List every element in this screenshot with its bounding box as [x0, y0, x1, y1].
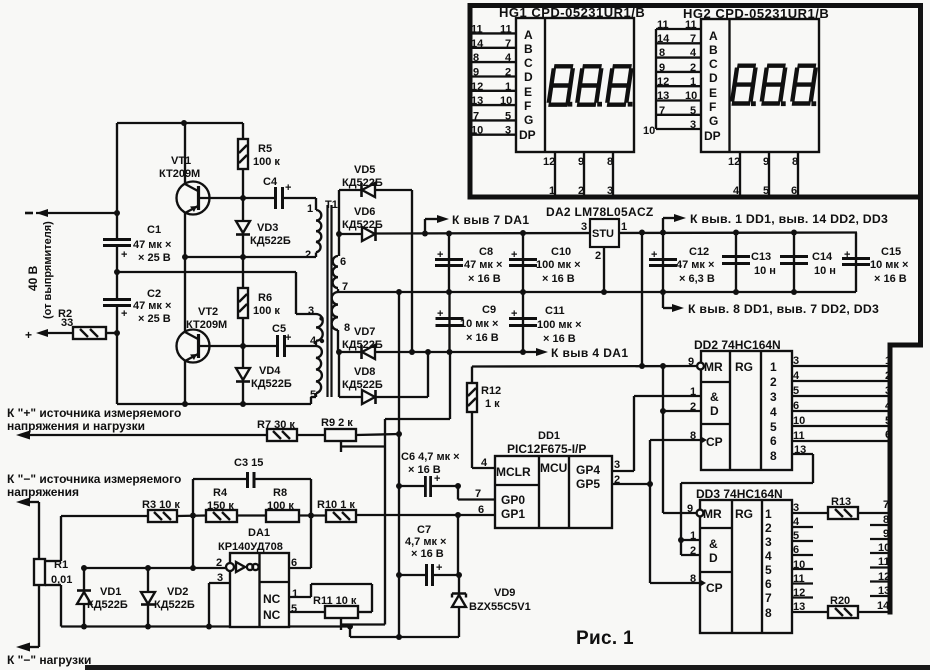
svg-text:9: 9 [473, 67, 479, 79]
node pin6 / VD6 row [336, 231, 342, 237]
svg-text:1: 1 [765, 507, 772, 521]
shunt resistor R1 [28, 501, 39, 503]
resistor R6 [242, 257, 244, 288]
svg-text:3: 3 [607, 185, 613, 197]
wire row1 [185, 256, 316, 258]
svg-text:К "−" нагрузки: К "−" нагрузки [7, 653, 91, 667]
svg-text:VT2: VT2 [198, 306, 218, 318]
node VT2 base junction [240, 343, 246, 349]
node DD3 MR inversion bubble [697, 510, 704, 517]
svg-text:10 н: 10 н [754, 265, 776, 277]
svg-text:CP: CP [706, 581, 723, 595]
svg-text:14: 14 [657, 33, 670, 45]
svg-text:MCU: MCU [540, 461, 567, 475]
svg-text:D: D [710, 404, 719, 418]
IC DD1 box [495, 456, 612, 528]
svg-text:10 мк ×: 10 мк × [460, 318, 498, 330]
wire row2 to T1 pin3 [117, 271, 296, 273]
svg-text:× 16 В: × 16 В [874, 273, 907, 285]
zener diode VD9 [458, 575, 460, 594]
svg-text:5: 5 [690, 105, 696, 117]
svg-text:1: 1 [505, 81, 511, 93]
svg-text:2: 2 [770, 375, 777, 389]
wire VD5 cathode drop [411, 190, 413, 352]
svg-text:VD5: VD5 [354, 164, 375, 176]
svg-text:С14: С14 [812, 251, 833, 263]
svg-text:× 16 В: × 16 В [542, 273, 575, 285]
capacitor C11 [522, 292, 524, 352]
svg-text:4: 4 [793, 370, 800, 382]
svg-text:К выв 7 DA1: К выв 7 DA1 [452, 213, 529, 227]
svg-text:4: 4 [481, 457, 488, 469]
node DD2 MR inversion bubble [697, 363, 704, 370]
svg-text:С2: С2 [147, 288, 161, 300]
svg-text:С3 15: С3 15 [234, 457, 263, 469]
wire MR line [472, 365, 697, 368]
node DD3 CP dynamic marker [700, 580, 706, 587]
svg-text:VD4: VD4 [259, 365, 281, 377]
svg-text:DD2 74HC164N: DD2 74HC164N [694, 338, 781, 352]
wire thick output bus [890, 195, 921, 615]
svg-text:100 мк ×: 100 мк × [537, 319, 582, 331]
svg-text:2: 2 [216, 557, 222, 569]
display HG2 digits 888 [732, 66, 816, 104]
svg-text:A: A [709, 29, 718, 43]
wire DD3 MR pin9 [663, 512, 697, 514]
svg-text:DD1: DD1 [538, 430, 560, 442]
svg-text:8: 8 [770, 449, 777, 463]
wire plus terminal [44, 332, 73, 334]
wire ground mid rail [338, 291, 856, 293]
display HG1 body [516, 18, 634, 152]
svg-text:+: + [511, 249, 517, 261]
svg-text:С6 4,7 мк ×: С6 4,7 мк × [401, 451, 460, 463]
svg-text:С10: С10 [551, 246, 571, 258]
node VD5 drop on minus rail [409, 349, 415, 355]
svg-text:К выв 4 DA1: К выв 4 DA1 [551, 346, 628, 360]
svg-text:DP: DP [519, 128, 536, 142]
svg-text:1: 1 [885, 355, 891, 367]
diode VD2 [147, 568, 149, 592]
svg-text:9: 9 [578, 156, 584, 168]
wire VD1/VD2 top row to DA1 pin2 [84, 567, 226, 569]
resistor R3 [148, 510, 177, 522]
svg-text:+: + [285, 182, 291, 194]
svg-text:12: 12 [471, 81, 483, 93]
diode VD1 [83, 568, 85, 591]
resistor R9 trimmer [325, 429, 356, 441]
svg-text:G: G [524, 113, 533, 127]
svg-text:× 16 В: × 16 В [411, 548, 444, 560]
svg-text:NC: NC [263, 592, 281, 606]
svg-text:5: 5 [310, 389, 316, 401]
capacitor C14 [793, 233, 795, 293]
wire branch to K vyv 7 DA1 [424, 219, 426, 234]
resistor R2 [73, 327, 106, 339]
svg-text:С15: С15 [881, 246, 901, 258]
node T1 pin4 polarity dot [320, 339, 324, 343]
svg-text:1: 1 [292, 588, 298, 600]
svg-text:G: G [709, 114, 718, 128]
svg-text:КД522Б: КД522Б [342, 177, 383, 189]
svg-text:КД522Б: КД522Б [154, 599, 195, 611]
svg-text:1 к: 1 к [485, 398, 500, 410]
svg-text:9: 9 [688, 356, 694, 368]
svg-text:DP: DP [704, 129, 721, 143]
svg-text:100 к: 100 к [253, 305, 280, 317]
svg-text:+: + [437, 249, 443, 261]
node VD3 bottom row1 [240, 254, 246, 260]
scan edge bottom [85, 665, 930, 670]
svg-text:VD1: VD1 [100, 586, 121, 598]
wire DD3 pin1 [681, 539, 700, 541]
svg-text:С12: С12 [689, 246, 709, 258]
svg-text:2: 2 [690, 545, 696, 557]
diode VD3 [242, 198, 244, 221]
wire T1 pin6 vertical [338, 190, 340, 256]
wire DA1 pin3 [209, 582, 230, 584]
wire DD3 row8 through R20 [792, 611, 828, 613]
svg-text:8: 8 [690, 573, 696, 585]
display HG2 bottom pins [739, 152, 741, 195]
svg-text:С9: С9 [482, 304, 496, 316]
svg-text:STU: STU [592, 228, 614, 240]
capacitor C12 [662, 233, 664, 292]
svg-text:+: + [844, 249, 850, 261]
svg-text:E: E [524, 85, 532, 99]
svg-text:CP: CP [706, 435, 723, 449]
wire DA1 pin1 [289, 596, 311, 598]
wire wiper net vertical x385 [384, 419, 386, 625]
svg-text:КТ209М: КТ209М [186, 319, 227, 331]
svg-text:6: 6 [765, 577, 772, 591]
transistor VT1 [177, 182, 210, 215]
diode VD8 [339, 396, 362, 398]
svg-text:8: 8 [344, 322, 350, 334]
wire left vertical C1/C2 column [116, 123, 118, 239]
svg-text:4: 4 [765, 549, 772, 563]
svg-text:1: 1 [307, 203, 313, 215]
svg-text:6: 6 [478, 504, 484, 516]
svg-text:10: 10 [500, 95, 512, 107]
svg-text:С8: С8 [479, 246, 493, 258]
opamp DA1 box [230, 553, 289, 627]
svg-text:8: 8 [792, 156, 798, 168]
wire MR pullup vertical x642 [641, 233, 643, 366]
transformer T1 secondary winding 6-7 [333, 256, 338, 288]
node C11 bottom on minus rail [520, 349, 526, 355]
svg-text:7: 7 [765, 591, 772, 605]
svg-text:10 н: 10 н [814, 265, 836, 277]
node VT1 emitter / row1 [182, 254, 188, 260]
svg-text:DD3 74HC164N: DD3 74HC164N [696, 487, 783, 501]
svg-text:E: E [709, 86, 717, 100]
display HG2 body [701, 19, 819, 152]
svg-text:2: 2 [765, 521, 772, 535]
node top rail / VT1 collector [181, 120, 187, 126]
svg-text:+: + [121, 308, 127, 320]
svg-text:10: 10 [471, 125, 483, 137]
svg-text:12: 12 [728, 156, 740, 168]
svg-text:5: 5 [770, 420, 777, 434]
wire VD8 branch [338, 352, 340, 397]
resistor R11 [325, 606, 358, 618]
wire DD2 pin2 [663, 410, 701, 412]
svg-text:8: 8 [659, 47, 665, 59]
svg-text:PIC12F675-I/P: PIC12F675-I/P [507, 442, 586, 456]
svg-text:3: 3 [505, 125, 511, 137]
svg-text:3: 3 [581, 221, 587, 233]
svg-text:GP5: GP5 [576, 477, 600, 491]
svg-text:7: 7 [473, 111, 479, 123]
resistor R13 [828, 507, 858, 519]
svg-text:4: 4 [690, 47, 697, 59]
resistor R12 [471, 367, 473, 384]
svg-text:R6: R6 [258, 292, 272, 304]
capacitor C15 [855, 233, 857, 293]
capacitor C1 [103, 238, 131, 241]
svg-text:8: 8 [690, 430, 696, 442]
svg-text:33: 33 [61, 317, 73, 329]
capacitor C8 [448, 234, 450, 292]
svg-text:2: 2 [578, 185, 584, 197]
svg-text:VD8: VD8 [354, 366, 375, 378]
svg-text:R11 10 к: R11 10 к [313, 595, 357, 607]
svg-text:F: F [709, 100, 716, 114]
svg-text:D: D [709, 71, 718, 85]
svg-text:(от выпрямителя): (от выпрямителя) [42, 221, 54, 319]
svg-text:8: 8 [765, 606, 772, 620]
svg-text:HG1 CPD-05231UR1/B: HG1 CPD-05231UR1/B [499, 5, 645, 20]
node minus terminal junction [114, 210, 120, 216]
capacitor C5 [243, 345, 277, 347]
display HG1 bottom pins [554, 152, 556, 195]
svg-text:× 25 В: × 25 В [138, 313, 171, 325]
svg-text:8: 8 [883, 514, 889, 526]
svg-text:+: + [121, 249, 127, 261]
svg-text:11: 11 [793, 430, 805, 442]
svg-text:14: 14 [471, 38, 484, 50]
svg-text:13: 13 [794, 444, 806, 456]
resistor R20 [828, 606, 858, 618]
node VD4 bottom on row3 [240, 401, 246, 407]
svg-text:7: 7 [690, 33, 696, 45]
svg-text:11: 11 [685, 19, 697, 31]
svg-text:&: & [710, 390, 719, 404]
svg-text:4: 4 [505, 52, 512, 64]
wire GP4 pin3 to DD2 pin1 [612, 470, 634, 472]
svg-text:4: 4 [310, 335, 317, 347]
svg-text:5: 5 [793, 530, 799, 542]
svg-text:12: 12 [878, 571, 890, 583]
svg-text:8: 8 [607, 156, 613, 168]
svg-text:DA2 LM78L05ACZ: DA2 LM78L05ACZ [546, 205, 654, 219]
svg-text:R4: R4 [213, 487, 228, 499]
svg-text:6: 6 [885, 429, 891, 441]
svg-text:2: 2 [614, 474, 620, 486]
svg-text:4: 4 [793, 516, 800, 528]
IC DD3 box [700, 500, 792, 633]
svg-text:2: 2 [595, 250, 601, 262]
svg-text:7: 7 [883, 499, 889, 511]
svg-text:С7: С7 [417, 524, 431, 536]
svg-text:напряжения: напряжения [7, 485, 79, 499]
wire MCLR pin4 [472, 467, 495, 469]
svg-text:напряжения и нагрузки: напряжения и нагрузки [7, 419, 145, 433]
svg-text:Т1: Т1 [325, 199, 338, 211]
svg-text:8: 8 [473, 52, 479, 64]
svg-text:4,7 мк ×: 4,7 мк × [405, 536, 446, 548]
capacitor C9 [448, 292, 450, 352]
wire DD2 output rows to bus [792, 365, 890, 367]
display HG1 ladder [469, 33, 471, 134]
svg-text:2: 2 [505, 67, 511, 79]
resistor R4 [206, 510, 237, 522]
svg-text:+: + [25, 328, 32, 342]
wire x663 down to DD2 pin2 and DD3 MR [662, 366, 664, 513]
svg-text:NC: NC [263, 608, 281, 622]
wire minus terminal [36, 212, 117, 214]
svg-text:К "−" источника измеряемого: К "−" источника измеряемого [7, 472, 181, 486]
svg-text:DA1: DA1 [248, 527, 270, 539]
svg-text:GP0: GP0 [501, 493, 525, 507]
svg-text:3: 3 [614, 459, 620, 471]
node R3/R4/C3/pin2 junction [190, 513, 196, 519]
svg-text:5: 5 [505, 111, 511, 123]
svg-text:9: 9 [883, 528, 889, 540]
svg-text:BZX55C5V1: BZX55C5V1 [469, 601, 531, 613]
wire bottom common rail [61, 625, 350, 627]
capacitor C10 [522, 233, 524, 292]
wire DD3 right stubs to bus [870, 524, 890, 526]
node branch K7DA1 [422, 231, 428, 237]
wire R1 top stub [45, 560, 61, 562]
svg-text:+: + [651, 249, 657, 261]
svg-text:HG2 CPD-05231UR1/B: HG2 CPD-05231UR1/B [683, 6, 829, 21]
svg-text:С5: С5 [272, 323, 286, 335]
svg-text:5: 5 [765, 563, 772, 577]
svg-text:R12: R12 [481, 385, 501, 397]
svg-text:4: 4 [885, 400, 892, 412]
svg-text:2: 2 [690, 62, 696, 74]
wire DD2 CP pin8 [650, 439, 701, 441]
transformer T1 secondary winding 7-8 [332, 292, 338, 330]
svg-text:1: 1 [690, 530, 696, 542]
wire K plus line with R7 R9 [28, 434, 267, 436]
wire C6 to GP0 pin7 [457, 486, 459, 500]
svg-text:5: 5 [763, 185, 769, 197]
svg-text:VD6: VD6 [354, 206, 375, 218]
svg-text:6: 6 [793, 400, 799, 412]
svg-text:7: 7 [659, 105, 665, 117]
wire DD3 CP pin8 [650, 582, 700, 584]
svg-text:× 25 В: × 25 В [138, 252, 171, 264]
regulator DA2 STU box [603, 247, 605, 292]
wire ground drop x399 [398, 292, 400, 637]
svg-text:С1: С1 [147, 224, 161, 236]
svg-text:5: 5 [291, 603, 297, 615]
svg-text:100 к: 100 к [267, 500, 294, 512]
svg-text:9: 9 [687, 503, 693, 515]
svg-text:13: 13 [793, 601, 805, 613]
svg-text:A: A [524, 28, 533, 42]
svg-text:+: + [437, 308, 443, 320]
svg-text:7: 7 [342, 281, 348, 293]
svg-text:1: 1 [690, 386, 696, 398]
svg-text:C: C [524, 56, 533, 70]
svg-text:RG: RG [735, 507, 753, 521]
transformer T1 core [326, 205, 328, 397]
diode VD5 [339, 189, 361, 191]
svg-text:10: 10 [793, 415, 805, 427]
svg-text:11: 11 [793, 573, 805, 585]
node C1 bottom row2 junction [114, 269, 120, 275]
svg-text:R13: R13 [831, 496, 851, 508]
wire C7 right to GP1 line [457, 515, 459, 575]
node 5V rail x642 [639, 230, 645, 236]
svg-text:× 6,3 В: × 6,3 В [679, 273, 715, 285]
svg-text:С13: С13 [751, 251, 771, 263]
resistor R8 [266, 510, 299, 522]
svg-text:9: 9 [763, 156, 769, 168]
svg-text:+: + [511, 308, 517, 320]
node T1 pin3 polarity dot [319, 316, 323, 320]
svg-text:3: 3 [793, 355, 799, 367]
svg-text:40 В: 40 В [26, 265, 40, 291]
svg-text:14: 14 [877, 600, 890, 612]
svg-text:D: D [524, 70, 533, 84]
svg-text:3: 3 [690, 119, 696, 131]
wire +5V rail [376, 233, 857, 234]
wire row3 emitter bottom [117, 403, 311, 405]
svg-text:7: 7 [505, 38, 511, 50]
svg-text:13: 13 [878, 585, 890, 597]
svg-text:4: 4 [770, 405, 777, 419]
svg-text:MR: MR [704, 360, 723, 374]
svg-text:12: 12 [793, 587, 805, 599]
svg-text:13: 13 [657, 90, 669, 102]
resistor R7 [267, 429, 297, 441]
node R8/R10/C3/pin6 junction [308, 513, 314, 519]
transformer T1 primary winding 4-5 [315, 341, 317, 346]
svg-text:150 к: 150 к [207, 500, 234, 512]
svg-text:11: 11 [657, 19, 669, 31]
display outer thick frame [470, 6, 921, 198]
capacitor C13 [735, 233, 737, 293]
svg-text:11: 11 [471, 24, 483, 36]
capacitor C7 [399, 574, 459, 576]
svg-text:9: 9 [659, 62, 665, 74]
svg-text:R7 30 к: R7 30 к [257, 419, 295, 431]
svg-text:F: F [524, 99, 531, 113]
svg-text:47 мк ×: 47 мк × [464, 259, 502, 271]
svg-text:КД522Б: КД522Б [250, 235, 291, 247]
svg-text:КД522Б: КД522Б [342, 379, 383, 391]
svg-text:100 к: 100 к [253, 156, 280, 168]
svg-text:D: D [709, 551, 718, 565]
svg-text:47 мк ×: 47 мк × [133, 239, 171, 251]
wire branch K vyv 8 DD1 [662, 292, 664, 308]
svg-text:С4: С4 [263, 176, 278, 188]
svg-text:3: 3 [885, 385, 891, 397]
svg-text:КД522Б: КД522Б [251, 378, 292, 390]
svg-text:2: 2 [690, 401, 696, 413]
wire DA1 pin5 [289, 611, 325, 613]
svg-text:С11: С11 [545, 305, 565, 317]
svg-text:КД522Б: КД522Б [342, 339, 383, 351]
svg-text:R8: R8 [273, 487, 287, 499]
svg-text:6: 6 [791, 185, 797, 197]
